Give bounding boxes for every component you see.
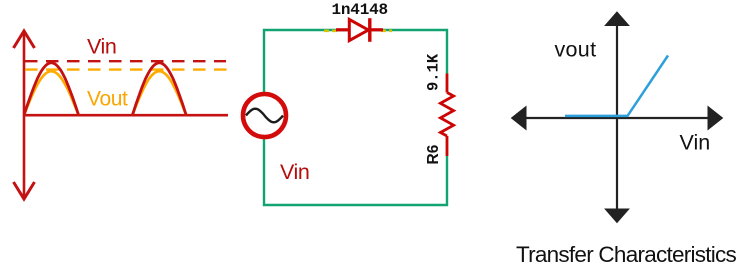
svg-text:Vout: Vout	[87, 88, 128, 111]
svg-text:1n4148: 1n4148	[332, 1, 388, 19]
svg-text:R6: R6	[425, 144, 442, 164]
svg-text:Vin: Vin	[680, 131, 711, 155]
svg-text:9.1K: 9.1K	[425, 53, 443, 91]
svg-text:vout: vout	[555, 37, 597, 61]
svg-text:Transfer Characteristics: Transfer Characteristics	[516, 242, 736, 267]
svg-text:Vin: Vin	[87, 35, 117, 59]
svg-text:Vin: Vin	[280, 160, 310, 184]
